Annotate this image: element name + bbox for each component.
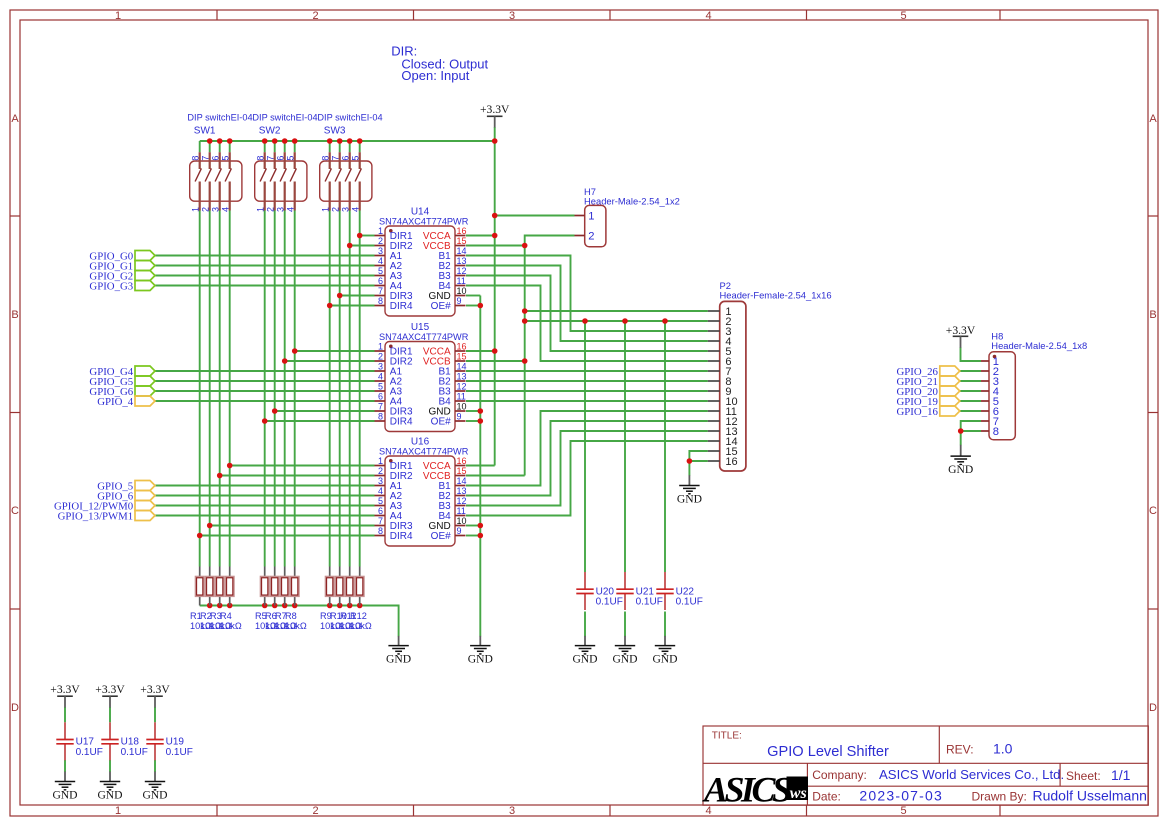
DIP switch SW3 EI-04 xyxy=(320,152,372,210)
svg-text:GND: GND xyxy=(652,653,677,666)
wire SW1-1 to U16 DIR4 xyxy=(200,535,375,537)
wire GPIO input to U16 xyxy=(155,485,375,487)
svg-text:16: 16 xyxy=(457,456,467,466)
resistor R10 10k xyxy=(335,567,345,606)
junction resistor bus xyxy=(327,603,333,609)
wire U16 B3 to P2 pin13 xyxy=(466,431,708,506)
wire SW1-2 to U16 DIR3 xyxy=(210,525,375,527)
junction U16 DIR1 xyxy=(227,463,233,469)
net flag GPIO_G0 xyxy=(89,251,155,263)
svg-text:R8: R8 xyxy=(285,611,297,621)
wire resistor bus to GND xyxy=(200,606,399,637)
net flag GPIO_G4 xyxy=(89,366,155,378)
junction U14 DIR2 xyxy=(347,243,353,249)
svg-text:Date:: Date: xyxy=(812,790,841,804)
net flag GPIO_19 xyxy=(897,396,960,408)
svg-text:A: A xyxy=(11,113,19,125)
wire switch column to resistor xyxy=(359,211,361,567)
svg-text:SN74AXC4T774PWR: SN74AXC4T774PWR xyxy=(379,216,469,226)
wire SW3-1 to U14 DIR4 xyxy=(330,305,375,307)
junction resistor bus xyxy=(272,603,278,609)
junction U15 DIR3 xyxy=(272,408,278,414)
junction resistor bus xyxy=(217,603,223,609)
wire +3.3V to H8 pin1 xyxy=(961,347,982,361)
svg-text:B: B xyxy=(1149,309,1156,321)
SW2 pin numbers xyxy=(256,156,296,212)
wire GPIO flag to H8 xyxy=(960,400,981,402)
svg-text:GPIO_G3: GPIO_G3 xyxy=(89,281,133,293)
svg-text:GND: GND xyxy=(52,788,77,801)
wire switch top pin xyxy=(199,141,201,152)
svg-text:10: 10 xyxy=(457,402,467,412)
svg-text:13: 13 xyxy=(457,486,467,496)
IC U16 SN74AXC4T774PWR body xyxy=(375,456,466,546)
wire VCCB to P2 pin1 xyxy=(525,310,708,312)
wire U15 OE# xyxy=(466,420,480,422)
svg-text:1: 1 xyxy=(115,805,121,817)
junction U15 VCCA xyxy=(492,348,498,354)
ground GND xyxy=(52,772,77,802)
svg-text:9: 9 xyxy=(457,296,462,306)
junction U16 OE# xyxy=(478,533,484,539)
svg-text:SN74AXC4T774PWR: SN74AXC4T774PWR xyxy=(379,446,469,456)
junction P2 pin16 GND xyxy=(687,458,693,464)
wire capacitor to GND xyxy=(154,760,156,772)
svg-text:TITLE:: TITLE: xyxy=(712,731,742,742)
resistor R8 10k xyxy=(290,567,300,606)
svg-text:8: 8 xyxy=(256,156,266,161)
svg-text:4: 4 xyxy=(378,256,383,266)
header H8 Header-Male-2.54_1x8 xyxy=(981,352,1015,440)
wire U15 VCCA xyxy=(466,350,495,352)
svg-text:+3.3V: +3.3V xyxy=(946,324,976,337)
wire VCCB to capacitor xyxy=(624,321,626,572)
net flag GPIO_G6 xyxy=(89,386,155,398)
junction capacitor on VCCB xyxy=(662,318,668,324)
wire GPIO input to U14 xyxy=(155,265,375,267)
wire U14 B4 to P2 pin6 xyxy=(466,286,708,362)
svg-text:DIR4: DIR4 xyxy=(390,417,413,428)
wire VCCB to P2 pin2 xyxy=(525,320,708,322)
svg-text:0.1UF: 0.1UF xyxy=(76,747,103,758)
svg-text:11: 11 xyxy=(457,276,466,286)
svg-text:+3.3V: +3.3V xyxy=(95,683,125,696)
power +3.3V xyxy=(480,103,510,128)
note DIR direction legend xyxy=(391,44,488,84)
ground GND xyxy=(652,636,677,666)
net flag GPIO_G2 xyxy=(89,271,155,283)
wire H7 pin2 VCCB vertical xyxy=(525,236,575,476)
SW1 pin numbers xyxy=(191,156,231,212)
svg-text:3: 3 xyxy=(341,207,351,212)
wire SW2-1 to U15 DIR4 xyxy=(265,420,375,422)
wire GPIO input to U14 xyxy=(155,275,375,277)
wire GPIO input to U14 xyxy=(155,285,375,287)
wire switch column to resistor xyxy=(199,211,201,567)
svg-text:Drawn By:: Drawn By: xyxy=(972,790,1027,804)
svg-text:10kΩ: 10kΩ xyxy=(285,621,307,631)
wire switch column to resistor xyxy=(349,211,351,567)
wire U14 OE# xyxy=(466,305,480,307)
title block xyxy=(703,726,1148,805)
junction +3.3V bus xyxy=(282,138,288,144)
net flag GPIO_21 xyxy=(897,376,960,388)
resistor R1 10k xyxy=(195,567,205,606)
junction U14 DIR1 xyxy=(357,233,363,239)
svg-text:8: 8 xyxy=(321,156,331,161)
junction U14 DIR3 xyxy=(337,293,343,299)
junction U15 DIR4 xyxy=(262,418,268,424)
svg-text:A: A xyxy=(1149,113,1157,125)
svg-text:3: 3 xyxy=(276,207,286,212)
svg-text:12: 12 xyxy=(457,496,467,506)
svg-text:7: 7 xyxy=(378,516,383,526)
capacitor U22 0.1UF xyxy=(656,572,673,610)
svg-text:2: 2 xyxy=(312,10,318,22)
IC U15 SN74AXC4T774PWR body xyxy=(375,342,466,432)
capacitor U18 0.1UF xyxy=(101,722,118,760)
svg-text:2: 2 xyxy=(378,352,383,362)
wire H8 pin8 to GND xyxy=(961,430,981,432)
svg-text:+3.3V: +3.3V xyxy=(140,683,170,696)
net flag GPIO_20 xyxy=(897,386,960,398)
svg-text:5: 5 xyxy=(378,496,383,506)
svg-text:Header-Female-2.54_1x16: Header-Female-2.54_1x16 xyxy=(720,290,832,301)
capacitor U17 0.1UF xyxy=(56,722,73,760)
DIP switch SW1 EI-04 xyxy=(190,152,242,210)
ground GND xyxy=(677,475,702,505)
wire U16 VCCB xyxy=(466,475,525,477)
svg-text:2: 2 xyxy=(378,466,383,476)
svg-text:Rudolf Usselmann: Rudolf Usselmann xyxy=(1033,788,1147,804)
svg-text:12: 12 xyxy=(457,382,467,392)
wire switch column to resistor xyxy=(219,211,221,567)
svg-text:ASICS: ASICS xyxy=(702,770,791,810)
junction +3.3V bus xyxy=(207,138,213,144)
junction resistor bus xyxy=(292,603,298,609)
junction +3.3V bus xyxy=(357,138,363,144)
svg-text:4: 4 xyxy=(221,207,231,212)
svg-text:14: 14 xyxy=(457,362,467,372)
svg-text:6: 6 xyxy=(378,392,383,402)
svg-text:GPIO_4: GPIO_4 xyxy=(97,396,134,408)
U15 pin numbers xyxy=(378,342,467,422)
net flag GPIOI_12/PWM0 xyxy=(54,501,155,513)
svg-text:3: 3 xyxy=(211,207,221,212)
ground GND xyxy=(572,636,597,666)
wire U16 B4 to P2 pin14 xyxy=(466,441,708,516)
wire SW2-3 to U15 DIR2 xyxy=(285,360,375,362)
svg-text:Header-Male-2.54_1x2: Header-Male-2.54_1x2 xyxy=(584,195,680,206)
svg-text:6: 6 xyxy=(341,156,351,161)
junction U15 GND xyxy=(478,408,484,414)
svg-text:2023-07-03: 2023-07-03 xyxy=(859,788,943,804)
junction +3.3V bus / power stub xyxy=(492,138,498,144)
svg-text:ws: ws xyxy=(790,785,807,802)
wire switch column to resistor xyxy=(274,211,276,567)
junction +3.3V bus xyxy=(217,138,223,144)
svg-text:5: 5 xyxy=(900,10,906,22)
wire GPIO flag to H8 xyxy=(960,370,981,372)
resistor R5 10k xyxy=(260,567,270,606)
svg-text:12: 12 xyxy=(457,266,467,276)
svg-text:3: 3 xyxy=(378,246,383,256)
svg-text:OE#: OE# xyxy=(431,301,451,312)
svg-text:2: 2 xyxy=(201,207,211,212)
svg-text:3: 3 xyxy=(509,10,515,22)
junction +3.3V bus xyxy=(262,138,268,144)
svg-text:REV:: REV: xyxy=(946,742,974,756)
svg-text:DIP switchEI-04: DIP switchEI-04 xyxy=(252,113,317,123)
header P2 Header-Female-2.54_1x16 xyxy=(708,301,746,471)
junction H7 pin1 xyxy=(492,213,498,219)
wire capacitor to GND xyxy=(624,612,626,637)
ground GND xyxy=(386,636,411,666)
junction U15 VCCB xyxy=(522,358,528,364)
junction U14 DIR4 xyxy=(327,303,333,309)
junction +3.3V bus xyxy=(227,138,233,144)
net flag GPIO_5 xyxy=(97,481,155,493)
wire switch top pin xyxy=(229,141,231,152)
junction resistor bus xyxy=(282,603,288,609)
svg-text:2: 2 xyxy=(331,207,341,212)
svg-text:3: 3 xyxy=(378,476,383,486)
svg-text:3: 3 xyxy=(509,805,515,817)
SW3 pin numbers xyxy=(321,156,361,212)
wire GPIO input to U15 xyxy=(155,390,375,392)
svg-text:8: 8 xyxy=(378,526,383,536)
svg-text:8: 8 xyxy=(191,156,201,161)
H7 pin numbers xyxy=(588,211,594,243)
wire GPIO flag to H8 xyxy=(960,410,981,412)
wire capacitor to GND xyxy=(584,612,586,637)
net flag GPIO_G1 xyxy=(89,261,155,273)
ground GND xyxy=(612,636,637,666)
svg-text:1: 1 xyxy=(378,342,383,352)
junction +3.3V bus xyxy=(272,138,278,144)
svg-text:2: 2 xyxy=(588,231,594,243)
resistor R9 10k xyxy=(325,567,335,606)
svg-text:SW1: SW1 xyxy=(194,126,216,137)
svg-text:9: 9 xyxy=(457,412,462,422)
wire U14 B3 to P2 pin5 xyxy=(466,276,708,352)
svg-text:R12: R12 xyxy=(350,611,367,621)
junction resistor bus xyxy=(207,603,213,609)
svg-text:GND: GND xyxy=(386,653,411,666)
wire SW1-4 to U16 DIR1 xyxy=(230,465,375,467)
svg-text:8: 8 xyxy=(993,426,999,438)
junction U14 VCCB xyxy=(522,243,528,249)
svg-text:4: 4 xyxy=(378,372,383,382)
svg-text:8: 8 xyxy=(378,296,383,306)
svg-text:16: 16 xyxy=(457,226,467,236)
svg-text:5: 5 xyxy=(286,156,296,161)
wire GPIO input to U16 xyxy=(155,515,375,517)
svg-text:DIR4: DIR4 xyxy=(390,301,413,312)
svg-text:SW2: SW2 xyxy=(259,126,281,137)
resistor R6 10k xyxy=(270,567,280,606)
junction P2 pin2 VCCB xyxy=(522,318,528,324)
svg-text:16: 16 xyxy=(457,342,467,352)
svg-text:DIR4: DIR4 xyxy=(390,531,413,542)
net flag GPIO_G5 xyxy=(89,376,155,388)
net flag GPIO_G3 xyxy=(89,281,155,293)
svg-text:0.1UF: 0.1UF xyxy=(166,747,193,758)
resistor R12 10k xyxy=(355,567,365,606)
wire U14 VCCA xyxy=(466,235,495,237)
wire VCCB to capacitor xyxy=(584,321,586,572)
ground GND xyxy=(142,772,167,802)
wire U16 OE# xyxy=(466,535,480,537)
svg-text:5: 5 xyxy=(221,156,231,161)
svg-text:SW3: SW3 xyxy=(324,126,346,137)
svg-text:GND: GND xyxy=(612,653,637,666)
svg-text:SN74AXC4T774PWR: SN74AXC4T774PWR xyxy=(379,332,469,342)
svg-text:Open: Input: Open: Input xyxy=(401,68,469,83)
svg-text:1: 1 xyxy=(191,207,201,212)
junction +3.3V bus xyxy=(347,138,353,144)
wire +3.3V to capacitor xyxy=(154,707,156,722)
wire switch top pin xyxy=(219,141,221,152)
wire U15 B output to P2 xyxy=(466,400,708,402)
svg-text:7: 7 xyxy=(201,156,211,161)
junction resistor bus xyxy=(357,603,363,609)
wire GPIO input to U15 xyxy=(155,380,375,382)
wire +3.3V to capacitor xyxy=(109,707,111,722)
wire GPIO input to U16 xyxy=(155,495,375,497)
capacitor U20 0.1UF xyxy=(576,572,593,610)
wire U14 GND xyxy=(466,295,480,297)
svg-text:1: 1 xyxy=(115,10,121,22)
svg-text:0.1UF: 0.1UF xyxy=(676,597,703,608)
junction capacitor on VCCB xyxy=(622,318,628,324)
svg-text:1: 1 xyxy=(256,207,266,212)
resistor R3 10k xyxy=(215,567,225,606)
wire switch top pin xyxy=(284,141,286,152)
ground GND xyxy=(97,772,122,802)
svg-text:+3.3V: +3.3V xyxy=(50,683,80,696)
wire capacitor to GND xyxy=(64,760,66,772)
svg-text:4: 4 xyxy=(378,486,383,496)
wire switch column to resistor xyxy=(329,211,331,567)
svg-text:11: 11 xyxy=(457,506,466,516)
wire P2 pin15 to GND xyxy=(689,451,707,476)
U14 pin numbers xyxy=(378,226,467,306)
wire U16 B2 to P2 pin12 xyxy=(466,421,708,496)
svg-text:0.1UF: 0.1UF xyxy=(121,747,148,758)
svg-text:6: 6 xyxy=(211,156,221,161)
wire H7 pin1 to +3.3V xyxy=(495,215,575,217)
svg-text:6: 6 xyxy=(378,276,383,286)
junction resistor bus xyxy=(227,603,233,609)
svg-text:10kΩ: 10kΩ xyxy=(220,621,242,631)
wire +3.3V bus xyxy=(200,140,495,142)
svg-text:GND: GND xyxy=(572,653,597,666)
wire switch column to resistor xyxy=(294,211,296,567)
wire U15 B output to P2 xyxy=(466,390,708,392)
svg-text:1.0: 1.0 xyxy=(993,741,1013,757)
wire SW1-3 to U16 DIR2 xyxy=(220,475,375,477)
svg-text:ASICS World Services Co., Ltd.: ASICS World Services Co., Ltd. xyxy=(879,767,1064,782)
wire GND vertical xyxy=(479,296,481,637)
svg-text:D: D xyxy=(11,702,19,714)
svg-text:15: 15 xyxy=(457,352,467,362)
junction resistor bus xyxy=(262,603,268,609)
svg-text:1: 1 xyxy=(321,207,331,212)
net flag GPIO_13/PWM1 xyxy=(58,511,155,523)
capacitor U21 0.1UF xyxy=(616,572,633,610)
power +3.3V xyxy=(50,683,80,707)
net flag GPIO_6 xyxy=(97,491,155,503)
svg-text:13: 13 xyxy=(457,256,467,266)
wire SW3-3 to U14 DIR2 xyxy=(350,245,375,247)
svg-text:16: 16 xyxy=(725,456,737,468)
svg-text:GND: GND xyxy=(948,463,973,476)
wire U16 GND xyxy=(466,525,480,527)
U16 pin numbers xyxy=(378,456,467,536)
net flag GPIO_4 xyxy=(97,396,155,408)
svg-text:2: 2 xyxy=(378,236,383,246)
svg-text:B: B xyxy=(11,309,18,321)
wire U15 VCCB xyxy=(466,360,525,362)
wire switch column to resistor xyxy=(284,211,286,567)
svg-text:7: 7 xyxy=(378,402,383,412)
wire GPIO input to U15 xyxy=(155,370,375,372)
svg-text:11: 11 xyxy=(457,392,466,402)
svg-text:1: 1 xyxy=(378,226,383,236)
svg-text:7: 7 xyxy=(378,286,383,296)
junction U15 DIR1 xyxy=(292,348,298,354)
junction U15 OE# xyxy=(478,418,484,424)
svg-text:C: C xyxy=(11,505,19,517)
svg-text:0.1UF: 0.1UF xyxy=(636,597,663,608)
svg-text:2: 2 xyxy=(312,805,318,817)
ground GND xyxy=(948,445,973,476)
junction U14 OE# xyxy=(478,303,484,309)
wire SW3-4 to U14 DIR1 xyxy=(360,235,375,237)
wire U14 B2 to P2 pin4 xyxy=(466,266,708,342)
DIP switch SW2 EI-04 xyxy=(255,152,307,210)
svg-text:2: 2 xyxy=(266,207,276,212)
svg-text:GPIO_13/PWM1: GPIO_13/PWM1 xyxy=(58,511,134,523)
power +3.3V xyxy=(140,683,170,707)
junction P2 pin1 VCCB xyxy=(522,308,528,314)
net flag GPIO_16 xyxy=(897,406,960,418)
junction +3.3V bus xyxy=(327,138,333,144)
ground GND xyxy=(468,636,493,666)
wire P2 pin16 to GND xyxy=(689,460,707,462)
wire U15 B output to P2 xyxy=(466,380,708,382)
wire U15 GND xyxy=(466,410,480,412)
junction +3.3V bus xyxy=(292,138,298,144)
junction +3.3V bus xyxy=(337,138,343,144)
capacitor U19 0.1UF xyxy=(146,722,163,760)
wire U14 VCCB xyxy=(466,245,525,247)
U16 pin names xyxy=(390,461,451,542)
wire GPIO flag to H8 xyxy=(960,390,981,392)
svg-text:1: 1 xyxy=(378,456,383,466)
svg-text:5: 5 xyxy=(900,805,906,817)
wire switch column to resistor xyxy=(264,211,266,567)
wire +3.3V vertical to VCCA pins xyxy=(494,127,496,466)
svg-text:15: 15 xyxy=(457,466,467,476)
wire switch top pin xyxy=(349,141,351,152)
wire switch column to resistor xyxy=(339,211,341,567)
wire U16 B1 to P2 pin11 xyxy=(466,411,708,486)
wire capacitor to GND xyxy=(664,612,666,637)
junction resistor bus xyxy=(337,603,343,609)
resistor R4 10k xyxy=(225,567,235,606)
